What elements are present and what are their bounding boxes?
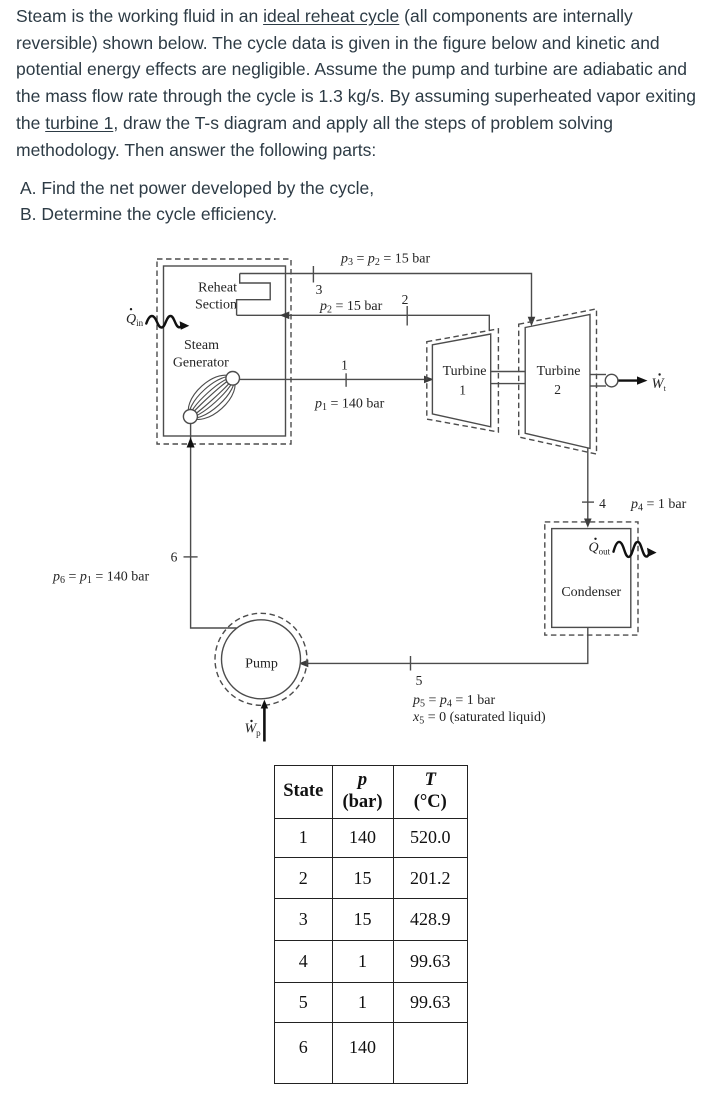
boiler bottom header circle (183, 410, 197, 424)
svg-text:Wp: Wp (245, 722, 262, 739)
label Condenser (561, 585, 621, 600)
label x5 = 0 (saturated liquid) (412, 710, 546, 727)
label Steam Generator (173, 338, 229, 371)
label Reheat Section (195, 281, 237, 313)
boiler top header circle (226, 372, 240, 386)
arrowhead into condenser (584, 519, 592, 528)
heat input label Qin (126, 308, 144, 328)
wire state 1 from boiler to turbine 1 (239, 378, 427, 380)
turbine 2 body (525, 315, 590, 449)
tick state 5 (410, 656, 412, 671)
label p5 = p4 = 1 bar (412, 693, 496, 710)
wire state 5 condenser to pump (304, 627, 588, 663)
svg-text:1: 1 (459, 383, 466, 398)
steam generator outer dashed box (157, 259, 291, 444)
label 3 (316, 282, 323, 297)
svg-text:3: 3 (316, 282, 323, 297)
label Pump (245, 657, 278, 672)
tick state 4 (582, 501, 594, 503)
svg-text:4: 4 (599, 496, 606, 511)
turbine 1 body (432, 334, 490, 427)
svg-text:p4 = 1 bar: p4 = 1 bar (630, 497, 687, 514)
label 2 (402, 292, 409, 307)
heat rejection arrowhead (647, 548, 657, 557)
label Wt (652, 373, 667, 393)
svg-text:p5 = p4 = 1 bar: p5 = p4 = 1 bar (412, 693, 496, 710)
heat input arrowhead (180, 321, 190, 330)
svg-text:Section: Section (195, 298, 237, 313)
tick state 2 (406, 306, 408, 326)
svg-text:p2 = 15 bar: p2 = 15 bar (319, 299, 383, 316)
svg-text:2: 2 (402, 292, 409, 307)
pump work arrow Wp (261, 700, 268, 742)
arrowhead into reheat section (280, 312, 290, 320)
arrowhead into pump (299, 660, 309, 668)
svg-text:Generator: Generator (173, 356, 229, 371)
svg-text:Wt: Wt (652, 376, 667, 393)
svg-text:6: 6 (171, 550, 178, 565)
svg-text:Qout: Qout (589, 541, 611, 557)
reheat coil (237, 274, 271, 316)
turbine 2 dashed outline (519, 309, 597, 454)
condenser outer dashed box (545, 522, 638, 635)
wire p2 from turbine 1 back to reheat (237, 315, 490, 331)
boiler drum tubes (181, 367, 243, 427)
svg-text:Reheat: Reheat (198, 281, 237, 296)
pump dashed circle (215, 613, 307, 705)
svg-text:p1 = 140 bar: p1 = 140 bar (314, 397, 385, 414)
turbine 1 dashed outline (427, 329, 499, 432)
label p2 = 15 bar (319, 299, 383, 316)
work output arrow Wt (619, 376, 648, 384)
label Qout (589, 538, 611, 557)
tick state 3 (312, 266, 314, 283)
svg-text:p6 = p1 = 140 bar: p6 = p1 = 140 bar (52, 570, 150, 587)
pump body (222, 620, 301, 699)
heat rejection squiggle arrow (614, 542, 649, 557)
arrowhead into turbine 1 (424, 376, 434, 384)
label 1 (341, 358, 348, 373)
label p6 = p1 = 140 bar (52, 570, 150, 587)
svg-text:Condenser: Condenser (561, 585, 621, 600)
label Turbine 1 (443, 364, 487, 398)
svg-text:p3 = p2 = 15 bar: p3 = p2 = 15 bar (340, 252, 431, 269)
label Wp (245, 720, 262, 738)
label p1 = 140 bar (314, 397, 385, 414)
svg-text:Qin: Qin (126, 312, 144, 328)
condenser inner box (552, 529, 631, 628)
svg-text:Steam: Steam (184, 338, 219, 353)
label Turbine 2 (537, 364, 581, 397)
tick state 1 (345, 373, 347, 387)
label 4 (599, 496, 606, 511)
arrowhead into turbine 2 (528, 317, 536, 327)
label p4 = 1 bar (630, 497, 687, 514)
label 6 (171, 550, 178, 565)
svg-text:x5 = 0 (saturated liquid): x5 = 0 (saturated liquid) (412, 710, 546, 727)
tick state 6 (184, 556, 198, 558)
svg-text:5: 5 (416, 673, 423, 688)
wire state 6 pump to steam generator (191, 424, 237, 628)
svg-text:2: 2 (554, 382, 561, 397)
arrowhead into steam generator (187, 437, 195, 447)
wire p3 from reheat to turbine 2 (240, 274, 532, 321)
shaft to coupling (590, 375, 606, 387)
steam generator inner box (164, 266, 286, 436)
svg-text:Turbine: Turbine (537, 364, 581, 379)
svg-text:Pump: Pump (245, 657, 278, 672)
heat input squiggle arrow (146, 316, 181, 328)
wire state 4 turbine 2 to condenser (587, 448, 589, 522)
svg-text:1: 1 (341, 358, 348, 373)
svg-text:Turbine: Turbine (443, 364, 487, 379)
shaft between turbines (491, 372, 526, 384)
shaft coupling circle (605, 374, 618, 387)
label 5 (416, 673, 423, 688)
label p3 = p2 = 15 bar (340, 252, 431, 269)
